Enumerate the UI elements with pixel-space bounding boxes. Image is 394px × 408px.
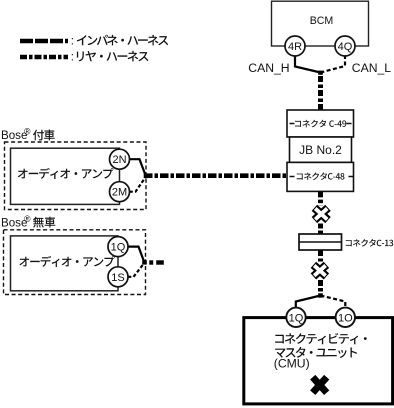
pin 4R	[285, 36, 305, 56]
svg-text:1Q: 1Q	[111, 242, 126, 254]
svg-text:®: ®	[24, 127, 31, 137]
audio amp box (Bose not-equipped)	[11, 236, 119, 291]
legend: rear harness label リヤ・ハーネス	[71, 51, 149, 64]
svg-text:CAN_H: CAN_H	[248, 61, 289, 75]
pin 1Q of amp	[108, 237, 128, 257]
wire: trunk below connector C-48 (thick dash-dot)	[318, 191, 323, 205]
svg-text:BCM: BCM	[310, 15, 334, 27]
Bose not-equipped label: Bose(R) 無車	[1, 214, 55, 230]
svg-text:®: ®	[24, 214, 31, 224]
wire: trunk from CAN junction to connector C-49 (thick dash-dot)	[318, 74, 323, 110]
svg-text::: :	[71, 36, 74, 48]
node: Bose not-equipped junction	[142, 260, 147, 264]
CMU label line 1 コネクティビティ・	[275, 333, 367, 344]
CMU box	[244, 318, 393, 404]
connector C-49 right tick	[347, 123, 352, 125]
pin 1Q of CMU	[286, 308, 305, 327]
pin 2M	[110, 182, 130, 202]
connector C-48 left tick	[290, 176, 295, 178]
audio amp box (Bose equipped)	[11, 148, 120, 204]
svg-text:1S: 1S	[111, 272, 124, 284]
audio amp label オーディオ・アンプ	[18, 168, 114, 179]
connector C-13 label	[346, 239, 394, 247]
connector C-48 label	[297, 172, 345, 180]
legend: instrument-panel harness line sample	[20, 39, 68, 44]
svg-text:1Q: 1Q	[289, 312, 304, 324]
Bose equipped label: Bose(R) 付車	[1, 127, 55, 143]
wire: from pin 1S of amp (dashed)	[128, 263, 145, 277]
wire: CAN_H from pin 4R (solid)	[295, 55, 321, 73]
svg-text:(CMU): (CMU)	[274, 357, 310, 371]
node: CAN junction below BCM	[318, 71, 323, 75]
connector C-48 box	[287, 162, 354, 191]
wire: junction to pin 1Q (solid)	[296, 296, 321, 308]
svg-text:1O: 1O	[338, 312, 353, 324]
Bose not-equipped dashed enclosure	[4, 230, 146, 295]
wire: stub dot	[149, 260, 153, 264]
audio amp label オーディオ・アンプ	[19, 256, 114, 267]
node: CMU junction	[318, 293, 323, 297]
pin 2N	[110, 149, 130, 169]
wire: rear harness from Bose amp junction to connector C-48 (thick dash-dot)	[146, 173, 286, 178]
connector C-13 box	[299, 234, 342, 250]
svg-text:4Q: 4Q	[338, 41, 353, 53]
connector C-48 right tick	[349, 176, 354, 178]
pin 4Q	[335, 36, 355, 56]
connector C-49 box	[287, 110, 354, 137]
node: Bose equipped junction	[144, 174, 149, 178]
wire: trunk below connector C-13	[318, 250, 323, 262]
svg-text::: :	[71, 52, 74, 64]
wire: stub dash	[156, 260, 164, 264]
splice symbol X1 (outlined X)	[314, 208, 328, 220]
legend: rear harness line sample	[20, 55, 68, 60]
pin 1O of CMU	[336, 308, 355, 327]
wire: junction to pin 1O (dashed)	[321, 296, 346, 308]
wire: from pin 1Q of amp (solid)	[128, 247, 145, 263]
connector C-13 midline	[299, 241, 342, 243]
Bose equipped dashed enclosure	[5, 142, 147, 210]
wire: trunk between X2 and CMU junction	[318, 280, 323, 294]
svg-text:CAN_L: CAN_L	[352, 61, 392, 75]
connector C-49 left tick	[290, 123, 295, 125]
wire: trunk between X1 and connector C-13	[318, 224, 323, 235]
connector C-49 label	[295, 120, 346, 128]
legend: instrument-panel harness label インパネ・ハーネス	[71, 35, 168, 48]
wire: from pin 2M (dashed)	[129, 177, 146, 192]
svg-text:4R: 4R	[288, 41, 302, 53]
pin 1S of amp	[108, 267, 128, 287]
wire: from pin 2N (solid)	[129, 159, 146, 176]
BCM box	[272, 1, 369, 46]
svg-text:2M: 2M	[112, 187, 127, 199]
svg-text:JB No.2: JB No.2	[299, 143, 342, 157]
JB No.2 box	[290, 137, 352, 162]
splice symbol X2 (outlined X)	[313, 265, 326, 277]
CMU bold X mark	[313, 377, 327, 393]
wire: CAN_L from pin 4Q (dashed)	[321, 55, 346, 73]
svg-text:2N: 2N	[112, 154, 126, 166]
CMU label line 2 マスタ・ユニット	[275, 347, 357, 358]
